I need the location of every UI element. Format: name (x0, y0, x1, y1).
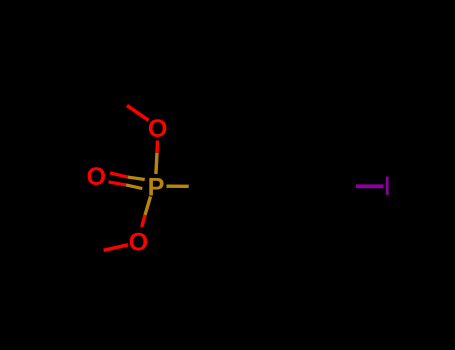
bond O1-P gold half (156, 153, 157, 174)
double bond P=O upper line gold half (128, 177, 145, 179)
double bond P=O lower line gold half (126, 185, 142, 189)
wire ethyl group 1 (black, invisible on bg) (70, 50, 127, 106)
bond P-O3 red half (142, 215, 145, 227)
bond P-C1 black half (189, 185, 222, 189)
bond O1-P red half (155, 141, 159, 154)
svg-text:O: O (129, 229, 149, 257)
benzene ring (black, invisible on bg) (222, 143, 322, 230)
bond P-C1 gold half (167, 184, 189, 188)
bond C4-I black half (322, 184, 356, 188)
double bond P=O upper line red half (110, 173, 128, 177)
atom I (iodine) (386, 177, 389, 195)
wire ethyl group 2 (black, invisible on bg) (55, 245, 104, 256)
bond CH2-O1 red half (127, 106, 149, 121)
bond O3-CH2 red half (104, 245, 129, 251)
svg-text:O: O (148, 115, 168, 143)
svg-text:O: O (87, 163, 107, 191)
double bond P=O lower line red half (109, 182, 127, 185)
bond C4-I purple half (356, 184, 384, 188)
bond P-O3 gold half (145, 197, 151, 216)
